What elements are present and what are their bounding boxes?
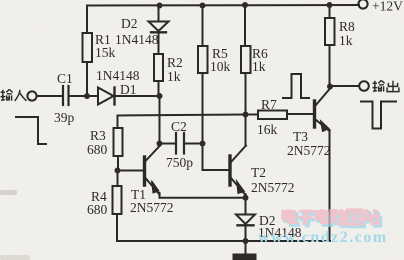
svg-text:15k: 15k	[95, 45, 116, 60]
capacitor C1	[63, 86, 69, 105]
resistor R3	[114, 128, 123, 156]
svg-text:T2: T2	[251, 165, 266, 180]
node dot: C2/R5 line	[200, 141, 206, 147]
diode D2	[149, 22, 169, 33]
svg-text:2N5772: 2N5772	[287, 143, 331, 158]
wire: R1 bottom lead to input node	[86, 62, 88, 96]
svg-text:680: 680	[87, 202, 108, 217]
wire: D1 cathode to node B	[115, 95, 160, 97]
resistor R7 (horizontal)	[258, 111, 287, 120]
svg-text:1N4148: 1N4148	[115, 32, 159, 47]
svg-text:D2: D2	[121, 16, 138, 31]
input terminal circle	[27, 91, 36, 100]
wire: node D down to R4	[117, 171, 119, 187]
output terminal circle	[359, 81, 369, 91]
label 输入 (input)	[1, 89, 27, 101]
svg-text:10k: 10k	[210, 59, 231, 74]
wire: node D to T1 base	[118, 170, 144, 172]
wire: R5 bottom run down to T2 base corner	[202, 73, 204, 170]
waveform: output negative pulse	[361, 102, 396, 129]
svg-text:T3: T3	[293, 129, 308, 144]
node dot: rail/R5	[200, 3, 206, 9]
diode D3 (labeled D2)	[236, 215, 255, 226]
wire: R4 bottom to ground rail	[116, 214, 118, 241]
node dot: rail/R8	[327, 2, 333, 8]
wire: node C to C2	[160, 143, 175, 145]
svg-text:www.cndz2.com: www.cndz2.com	[258, 229, 388, 246]
wire: T2 emitter to node F	[245, 194, 247, 198]
wire: bottom ground rail	[117, 240, 330, 242]
svg-text:680: 680	[87, 142, 108, 157]
svg-text:C2: C2	[171, 119, 187, 134]
wire: top +12V rail	[87, 4, 359, 7]
node dot: R8/T3 collector/output	[327, 84, 333, 90]
node dot: R3/R4/T1 base node D	[115, 168, 121, 174]
wire: R8 top lead from rail	[329, 5, 331, 18]
node dot: T1/T2 emitters node F	[243, 195, 249, 201]
svg-text:D1: D1	[120, 82, 137, 97]
ground symbol	[233, 254, 256, 260]
node dot: rail/R6	[242, 2, 248, 8]
node dot: D1/R2 node B	[157, 93, 163, 99]
svg-text:2N5772: 2N5772	[130, 200, 174, 215]
wire: C2 right plate to R5 line	[184, 143, 203, 145]
svg-text:R3: R3	[90, 128, 106, 143]
svg-text:1k: 1k	[252, 59, 266, 74]
node dot: ground rail/D3	[243, 238, 249, 244]
wire: D2 top lead from rail	[158, 6, 160, 22]
waveform: T3 base positive pulse	[283, 74, 309, 98]
wire: R8 bottom to output node	[329, 45, 331, 87]
svg-text:1N4148: 1N4148	[96, 68, 140, 83]
wire: ground rail node to ground symbol	[245, 241, 247, 254]
resistor R5	[198, 46, 208, 73]
wire: D2 to R2	[158, 32, 160, 54]
wire: T1 emitter down and right to T2 emitter node	[160, 193, 246, 198]
svg-text:C1: C1	[57, 71, 73, 86]
transistor T2	[230, 146, 246, 196]
wire: corner to T2 base	[203, 169, 229, 171]
wire: C1 to node A	[69, 95, 99, 97]
wire: R6 bottom to node E	[245, 73, 247, 115]
resistor R6	[241, 46, 251, 73]
scan smudge bottom-left	[0, 190, 17, 195]
wire: node F to D3	[245, 198, 247, 215]
wire: R3 bottom to node D	[117, 156, 119, 171]
node dot: C1/R1/D1	[84, 93, 90, 99]
capacitor C2	[176, 133, 184, 154]
node dot: C2/T1 collector node C	[157, 141, 163, 147]
wire: R5 top lead from rail	[202, 6, 204, 47]
node dot: R6/R7/T2 collector node E	[243, 112, 249, 118]
wire: R6 top lead from rail	[244, 6, 246, 47]
svg-text:1k: 1k	[339, 33, 353, 48]
waveform: input falling edge	[16, 117, 46, 144]
wire: node E to R7	[246, 114, 258, 116]
svg-text:2N5772: 2N5772	[251, 180, 295, 195]
wire: corner down to R3	[117, 116, 119, 129]
svg-text:R2: R2	[167, 55, 183, 70]
transistor T3	[315, 89, 331, 132]
resistor R8	[325, 18, 335, 45]
svg-text:39p: 39p	[54, 110, 75, 125]
svg-text:+12V: +12V	[372, 0, 403, 14]
watermark 电子电路图站	[283, 209, 380, 226]
wire: input terminal to C1	[37, 95, 62, 97]
wire: D3 cathode to ground rail	[245, 225, 247, 241]
svg-text:1k: 1k	[167, 69, 181, 84]
+12V terminal circle	[358, 0, 367, 9]
resistor R2	[154, 54, 163, 81]
resistor R1	[83, 33, 93, 62]
svg-text:R8: R8	[339, 19, 355, 34]
svg-text:750p: 750p	[166, 155, 193, 170]
svg-text:R7: R7	[261, 97, 277, 112]
node dot: rail/D2	[157, 3, 163, 9]
diode D1	[98, 88, 115, 105]
wire: R7 to T3 base	[287, 113, 313, 115]
wire: T2 collector up to node E	[245, 115, 247, 147]
wire: feedback line R3 top to R7 node	[118, 115, 247, 116]
wire: R1 top lead from rail	[86, 6, 88, 34]
wire: T3 emitter down to ground rail	[329, 130, 331, 241]
wire: R2 bottom to node B	[158, 81, 160, 96]
resistor R4	[113, 186, 122, 214]
wire: output node to output terminal	[330, 85, 359, 87]
label 输出 (output)	[373, 80, 399, 91]
transistor T1	[145, 146, 161, 195]
svg-text:16k: 16k	[257, 122, 278, 137]
wire: node B down to node C	[159, 96, 161, 144]
